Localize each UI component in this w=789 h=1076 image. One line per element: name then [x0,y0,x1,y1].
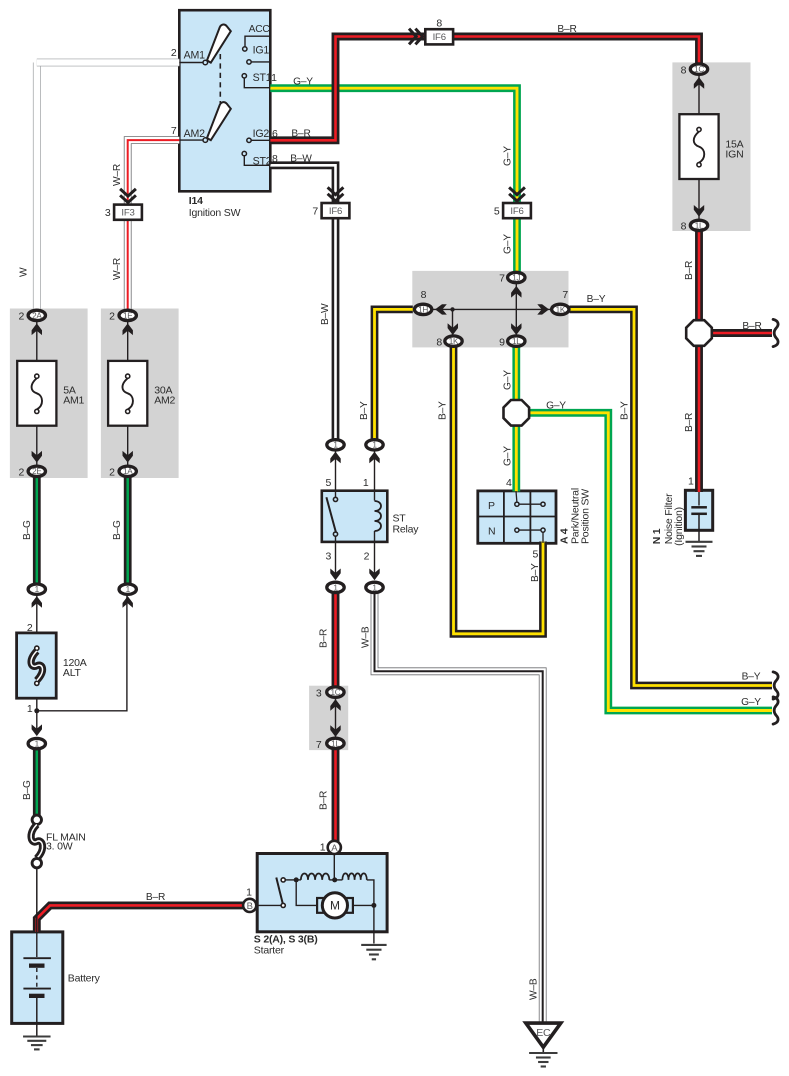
svg-text:2: 2 [19,467,25,479]
svg-text:7: 7 [171,125,177,137]
svg-text:AM2: AM2 [154,394,175,406]
svg-text:IF6: IF6 [510,206,523,217]
svg-text:1E: 1E [123,311,133,320]
svg-text:M: M [330,899,340,913]
svg-text:(Ignition): (Ignition) [673,507,685,546]
svg-text:W–R: W–R [112,164,123,186]
svg-text:1L: 1L [512,337,521,346]
svg-text:2A: 2A [32,311,42,320]
svg-text:3. 0W: 3. 0W [46,841,73,853]
svg-text:Position SW: Position SW [579,489,591,544]
svg-text:B–R: B–R [557,24,576,35]
svg-text:2: 2 [109,467,115,479]
svg-text:B–G: B–G [112,520,123,540]
svg-text:2: 2 [171,47,177,59]
svg-text:3: 3 [105,207,111,219]
svg-text:B–W: B–W [290,154,312,165]
svg-text:B–R: B–R [684,413,695,432]
svg-text:ST2: ST2 [253,156,272,168]
svg-text:I14: I14 [189,195,203,207]
svg-text:1H: 1H [418,305,428,314]
svg-text:8: 8 [436,336,442,348]
svg-text:2: 2 [19,311,25,323]
svg-text:B–W: B–W [320,303,331,325]
svg-text:AM1: AM1 [184,49,205,61]
svg-text:5: 5 [494,205,500,217]
svg-text:5: 5 [533,549,539,561]
svg-text:7: 7 [312,205,318,217]
svg-text:6: 6 [272,128,278,140]
svg-text:B–R: B–R [684,261,695,280]
svg-text:1C: 1C [330,688,340,697]
svg-text:W–B: W–B [529,978,540,1000]
svg-text:AM2: AM2 [184,128,205,140]
svg-text:5: 5 [326,477,332,489]
svg-text:1: 1 [320,842,326,854]
svg-text:A: A [331,843,338,854]
svg-text:1: 1 [372,441,377,450]
svg-text:7: 7 [499,273,505,285]
svg-text:7: 7 [316,739,322,751]
svg-text:B: B [247,901,253,912]
svg-text:P: P [488,500,495,512]
svg-text:B–Y: B–Y [620,401,631,420]
svg-text:1: 1 [35,585,40,594]
svg-text:3: 3 [326,551,332,563]
svg-text:1J: 1J [512,273,520,282]
svg-text:3: 3 [316,688,322,700]
svg-text:1: 1 [333,441,338,450]
svg-text:ST: ST [393,513,407,525]
svg-text:B–Y: B–Y [359,401,370,420]
svg-text:8: 8 [681,221,687,233]
svg-text:EC: EC [536,1027,551,1039]
svg-text:B–R: B–R [291,129,310,140]
svg-text:B–R: B–R [146,892,165,903]
svg-text:AM1: AM1 [63,394,84,406]
svg-text:1A: 1A [123,467,133,476]
svg-text:B–R: B–R [319,629,330,648]
svg-text:4: 4 [506,477,512,489]
svg-text:W: W [19,267,30,277]
svg-text:W–R: W–R [112,258,123,280]
svg-text:1: 1 [363,477,369,489]
svg-text:Starter: Starter [254,945,285,957]
svg-text:IG2: IG2 [253,128,270,140]
svg-text:1C: 1C [694,65,704,74]
svg-text:1K: 1K [449,337,459,346]
svg-text:IF6: IF6 [329,206,342,217]
svg-text:B–Y: B–Y [742,672,761,683]
svg-text:G–Y: G–Y [741,697,761,708]
svg-text:ALT: ALT [63,667,82,679]
svg-text:7: 7 [562,289,568,301]
svg-text:1: 1 [333,583,338,592]
svg-text:B–R: B–R [319,791,330,810]
svg-text:1L: 1L [331,739,340,748]
svg-text:2: 2 [109,311,115,323]
svg-text:B–G: B–G [22,780,33,800]
svg-text:N 1: N 1 [651,528,663,544]
svg-text:Battery: Battery [68,972,101,984]
svg-text:1K: 1K [556,305,566,314]
svg-text:1: 1 [126,585,131,594]
svg-text:9: 9 [499,336,505,348]
svg-text:G–Y: G–Y [503,446,514,466]
svg-text:IGN: IGN [725,148,743,160]
svg-text:W–B: W–B [361,626,372,648]
svg-text:1: 1 [246,886,252,898]
svg-text:B–Y: B–Y [530,563,541,582]
svg-text:B–G: B–G [22,520,33,540]
svg-text:IG1: IG1 [253,45,270,57]
svg-text:B–Y: B–Y [438,401,449,420]
svg-text:2E: 2E [32,467,42,476]
svg-text:G–Y: G–Y [546,400,566,411]
svg-text:G–Y: G–Y [293,77,313,88]
svg-text:B–R: B–R [742,321,761,332]
svg-text:G–Y: G–Y [503,234,514,254]
svg-text:2: 2 [27,622,33,634]
svg-text:Relay: Relay [393,524,420,536]
svg-text:G–Y: G–Y [503,370,514,390]
svg-text:N: N [488,526,495,538]
svg-text:B–Y: B–Y [587,294,606,305]
svg-text:8: 8 [436,17,442,29]
svg-text:1L: 1L [695,221,704,230]
svg-text:Ignition SW: Ignition SW [189,207,241,219]
svg-text:8: 8 [272,153,278,165]
svg-text:1: 1 [27,703,33,715]
svg-text:1: 1 [271,72,277,84]
svg-text:2: 2 [364,551,370,563]
svg-text:8: 8 [681,64,687,76]
svg-text:1: 1 [688,476,694,488]
svg-text:IF3: IF3 [121,208,134,219]
svg-text:1: 1 [35,740,40,749]
svg-text:ACC: ACC [249,24,270,35]
svg-text:ST1: ST1 [253,72,272,84]
svg-text:8: 8 [421,289,427,301]
svg-text:G–Y: G–Y [503,146,514,166]
svg-text:IF6: IF6 [433,32,446,43]
svg-text:1: 1 [372,583,377,592]
